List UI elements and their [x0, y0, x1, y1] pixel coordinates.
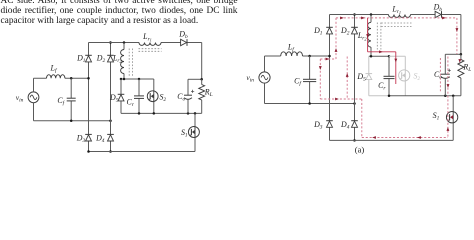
- current path red solid under L_r2 (right): [368, 51, 396, 53]
- node R_L top (right): [460, 53, 463, 56]
- diode D4 (right): [351, 120, 358, 122]
- switch S2 (right): [399, 70, 410, 81]
- svg-text:D1: D1: [76, 54, 86, 64]
- svg-text:Co: Co: [177, 92, 185, 103]
- svg-text:Lr2: Lr2: [112, 54, 123, 65]
- switch S1 (right): [452, 96, 454, 141]
- diode D3 (right): [326, 120, 333, 122]
- wire S2 branch (right): [389, 56, 405, 95]
- svg-text:(a): (a): [355, 145, 365, 155]
- capacitor C_f (right): [309, 56, 311, 104]
- svg-text:Cr: Cr: [127, 98, 135, 109]
- diode D2 (left): [107, 54, 114, 56]
- diode Db (left): [186, 39, 188, 46]
- wire C_o top link (left): [188, 78, 202, 80]
- current path red dashed right side (right): [456, 18, 458, 54]
- node branch1 input (left): [87, 77, 90, 80]
- voltage source v_in (left): [28, 92, 39, 103]
- current path red solid beside C_r (right): [395, 52, 397, 84]
- svg-text:vin: vin: [246, 73, 254, 84]
- svg-text:D4: D4: [95, 134, 105, 145]
- current path red dashed through S1 branch (right): [447, 57, 449, 138]
- node branch2 bottom (left): [109, 150, 112, 153]
- resistor R_L (left): [201, 79, 203, 113]
- node C_f top (left): [70, 77, 73, 80]
- diode D1 (right): [326, 26, 333, 28]
- wire output top (left): [121, 79, 154, 91]
- inductor L_f (right): [281, 52, 303, 56]
- core of L_r2 (right): [377, 23, 381, 50]
- wire output bottom gray (right): [369, 95, 389, 97]
- node input bottom junction (left): [70, 120, 73, 123]
- current path red dashed bottom (right): [362, 137, 448, 139]
- svg-text:D5: D5: [356, 72, 366, 83]
- wire bridge branch 1 (right): [329, 15, 331, 141]
- current path red dashed beside D2 (right): [346, 57, 348, 100]
- svg-text:D2: D2: [340, 26, 350, 37]
- switch S1 (left): [194, 113, 196, 151]
- node branch2 top (left): [109, 41, 112, 44]
- core of L_r1 (right): [381, 23, 411, 27]
- wire bridge branch 2 (right): [354, 15, 356, 141]
- wire bridge branch 2 (left): [110, 43, 112, 152]
- wire C_o top link (right): [445, 53, 461, 55]
- wire input top (right): [265, 55, 330, 57]
- svg-text:RL: RL: [462, 63, 471, 74]
- coupled inductor L_r1 (right): [389, 15, 411, 18]
- svg-text:Lr1: Lr1: [142, 32, 152, 43]
- wire left vertical (right): [264, 56, 266, 104]
- wire bottom rail (right): [330, 139, 454, 141]
- svg-text:S1: S1: [433, 111, 440, 122]
- diode D5 (right): [368, 56, 370, 95]
- capacitor C_f (left): [70, 78, 72, 121]
- inductor L_f (left): [47, 75, 65, 79]
- node C_f top (right): [308, 55, 311, 58]
- wire left vertical (left): [33, 78, 35, 121]
- svg-text:Lf: Lf: [50, 63, 58, 74]
- node L_r2 top (right): [370, 13, 373, 16]
- capacitor C_r (right): [388, 56, 390, 95]
- diode D2 (right): [351, 26, 358, 28]
- node output bottom junctions (left): [138, 112, 141, 115]
- svg-text:Db: Db: [433, 2, 443, 13]
- svg-text:D2: D2: [96, 54, 106, 64]
- wire bottom rail (left): [89, 151, 196, 153]
- core of L_r1 (left): [139, 49, 162, 52]
- node output top junctions (left): [120, 78, 123, 81]
- current direction arrows (right): [340, 16, 344, 19]
- svg-text:Lr1: Lr1: [391, 4, 401, 15]
- diode D3 (left): [85, 133, 92, 135]
- current path red dashed top (right): [336, 17, 457, 19]
- wire output bottom (left): [121, 112, 202, 114]
- svg-text:D1: D1: [313, 26, 323, 37]
- current path red dashed beside C_o (right): [439, 58, 441, 92]
- wire input top (left): [34, 77, 89, 79]
- coupled inductor L_r2 (right): [370, 15, 372, 57]
- voltage source v_in (right): [259, 72, 270, 83]
- wire output top (right): [369, 55, 389, 57]
- resistor R_L (right): [460, 54, 462, 95]
- capacitor C_r (left): [138, 79, 140, 113]
- diode D4 (left): [107, 133, 114, 135]
- svg-text:S2: S2: [413, 71, 420, 82]
- svg-text:D4: D4: [340, 120, 350, 131]
- svg-text:S2: S2: [159, 93, 166, 104]
- svg-text:vin: vin: [16, 93, 24, 104]
- current path red dashed left vertical (right): [319, 59, 321, 99]
- svg-text:D5: D5: [109, 93, 119, 104]
- wire bridge branch 1 (left): [88, 43, 90, 152]
- svg-text:Cf: Cf: [57, 96, 65, 107]
- svg-text:Db: Db: [178, 30, 188, 41]
- current path red dashed lower-left horizontal (right): [320, 98, 362, 100]
- capacitor C_o (left): [187, 79, 189, 113]
- wire top rail (left): [89, 43, 202, 80]
- node branch1 input (right): [328, 55, 331, 58]
- node L_r2 top (left): [123, 41, 126, 44]
- svg-text:Cf: Cf: [294, 77, 302, 88]
- wire input bottom (left): [34, 120, 111, 122]
- node branch2 bottom (right): [353, 139, 356, 142]
- core of L_r2 (left): [129, 49, 132, 77]
- node output bottom junctions (right): [388, 94, 391, 97]
- switch S2 (left): [153, 102, 155, 114]
- current path red dashed up beside D4 (right): [361, 99, 363, 138]
- node R_L top (left): [200, 78, 203, 81]
- coupled inductor L_r1 (left): [139, 43, 161, 46]
- capacitor C_o (right): [444, 54, 446, 95]
- diode D5 (left): [120, 79, 122, 113]
- svg-text:Cr: Cr: [378, 81, 386, 92]
- current path red dashed upper-left horizontal (right): [320, 58, 336, 60]
- wire input bottom (right): [265, 103, 355, 105]
- diode D1 (left): [85, 54, 92, 56]
- node input bottom junctions (right): [308, 102, 311, 105]
- node output top junctions (right): [370, 55, 373, 58]
- node branch2 top (right): [353, 13, 356, 16]
- svg-text:S1: S1: [181, 128, 188, 139]
- wire top rail (right): [330, 15, 461, 55]
- svg-text:Co: Co: [434, 70, 442, 81]
- current path red dashed up beside D1 (right): [335, 18, 337, 59]
- wire output bottom (right): [389, 95, 461, 97]
- current path red solid beside L_r2 (right): [367, 18, 369, 52]
- diode Db (right): [441, 11, 443, 18]
- svg-text:RL: RL: [204, 87, 213, 98]
- svg-text:Lr2: Lr2: [357, 31, 368, 42]
- coupled inductor L_r2 (left): [123, 43, 125, 80]
- svg-text:Lf: Lf: [287, 42, 295, 53]
- svg-text:D3: D3: [76, 134, 86, 145]
- svg-text:D3: D3: [313, 120, 323, 131]
